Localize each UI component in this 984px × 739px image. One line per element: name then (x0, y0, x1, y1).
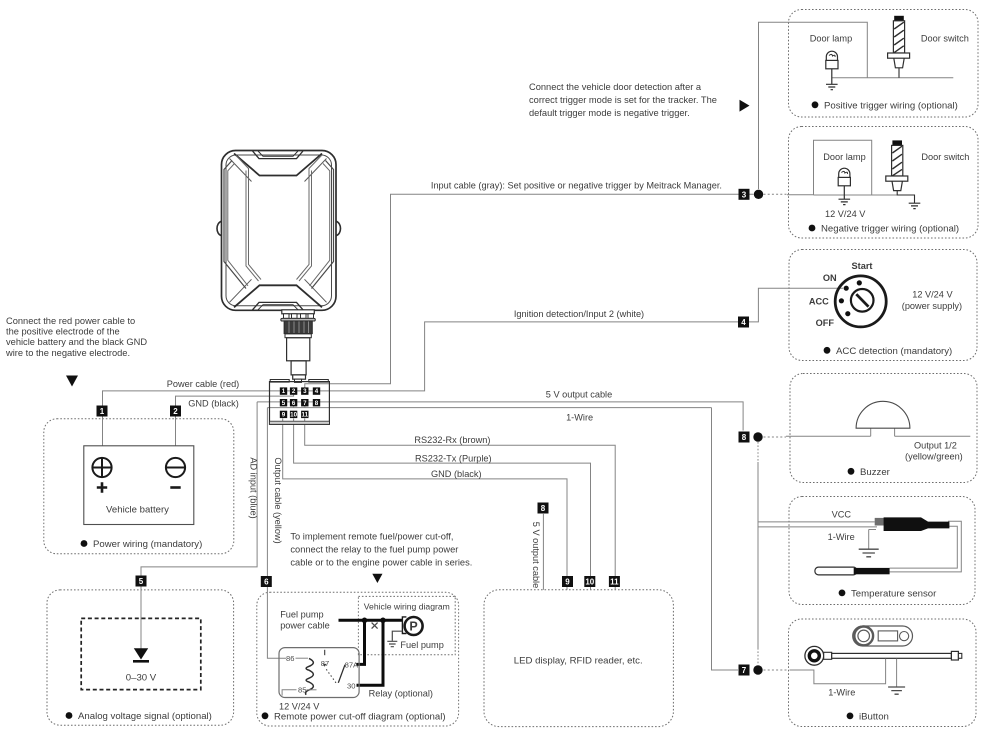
iButton probe hub (824, 652, 832, 659)
svg-text:87: 87 (321, 659, 329, 668)
svg-text:2: 2 (173, 407, 178, 416)
wire: vertical riser to positive trigger box (759, 22, 868, 189)
wire: GND black from pin9 to square 9 (283, 418, 567, 589)
svg-text:1: 1 (282, 388, 286, 395)
svg-text:vehicle battery and the black: vehicle battery and the black GND (6, 337, 147, 347)
pin 3 (301, 387, 308, 394)
node 8 (LED feed) (538, 503, 549, 514)
tracker side bump left (217, 221, 222, 235)
temp sensor probe (815, 567, 857, 575)
ground (negative lamp) (839, 199, 851, 204)
pin 8 (313, 399, 320, 406)
caption: negative trigger wiring (809, 224, 960, 235)
wire: input cable gray from pin3 to square 3 (305, 194, 754, 388)
svg-text:Input cable (gray): Set positi: Input cable (gray): Set positive or nega… (431, 181, 722, 191)
svg-text:default trigger mode is negati: default trigger mode is negative trigger… (529, 108, 690, 118)
svg-text:3: 3 (742, 190, 747, 199)
svg-text:Buzzer: Buzzer (860, 467, 891, 478)
temp sensor ground lead (869, 530, 876, 549)
svg-text:OFF: OFF (816, 318, 835, 328)
wire: output cable down to relay pin 86 (267, 408, 286, 659)
node 3 (739, 189, 750, 200)
note: door detection paragraph (529, 82, 717, 118)
caption: ACC detection (824, 346, 953, 357)
svg-text:Door switch: Door switch (921, 34, 969, 44)
svg-text:power cable: power cable (280, 621, 330, 631)
caption: power wiring (81, 539, 203, 550)
svg-text:5: 5 (139, 577, 144, 586)
iButton probe end connector (951, 651, 958, 660)
tracker body outline (217, 151, 341, 311)
ignition key switch outer circle (835, 276, 886, 327)
connector flange left (270, 380, 289, 383)
svg-text:4: 4 (741, 318, 746, 327)
svg-text:Door switch: Door switch (921, 152, 969, 162)
svg-text:RS232-Tx (Purple): RS232-Tx (Purple) (415, 454, 492, 464)
node 2 (170, 406, 181, 417)
svg-text:0–30 V: 0–30 V (126, 673, 157, 684)
svg-text:(power supply): (power supply) (902, 301, 962, 311)
buzzer wire (786, 435, 970, 437)
iButton reader window (878, 631, 897, 641)
node 8 (right column) (739, 432, 750, 443)
caption: iButton (847, 711, 889, 722)
door switch (positive) (888, 16, 910, 78)
wire: vertical net between square8 dot and square7 dot (757, 442, 759, 462)
relay wire 86 to coil (296, 657, 309, 659)
svg-text:8: 8 (742, 433, 747, 442)
svg-text:5: 5 (282, 400, 286, 407)
svg-text:iButton: iButton (859, 711, 889, 722)
gland knurled nut (284, 321, 312, 334)
wire: 5V output cable stub to LED box (542, 514, 544, 590)
marker: right triangle top (740, 100, 750, 112)
temp sensor ground (859, 549, 879, 557)
battery positive terminal (92, 458, 111, 477)
svg-text:7: 7 (742, 666, 747, 675)
wire: 1-wire down to square 7 (712, 408, 739, 670)
ignition key slot (856, 294, 868, 307)
svg-text:GND (black): GND (black) (431, 469, 482, 479)
wire: GND black to battery minus (176, 395, 294, 446)
cut mark X (372, 623, 378, 629)
tracker top chevron (234, 154, 322, 176)
battery plus sign (97, 482, 107, 492)
svg-text:3: 3 (303, 388, 307, 395)
svg-text:1: 1 (100, 407, 105, 416)
tracker right panel (312, 161, 334, 289)
svg-text:AD input (blue): AD input (blue) (249, 457, 259, 518)
node 11 (609, 576, 620, 587)
door switch (negative) (886, 140, 915, 203)
box: remote power cut-off (257, 592, 459, 726)
pin 7 (301, 399, 308, 406)
svg-text:12 V/24 V: 12 V/24 V (825, 209, 866, 219)
svg-text:Ignition detection/Input 2 (wh: Ignition detection/Input 2 (white) (514, 309, 644, 319)
svg-text:9: 9 (282, 412, 286, 419)
svg-text:LED display, RFID reader, etc.: LED display, RFID reader, etc. (514, 656, 643, 667)
relay R1 body (279, 648, 359, 698)
key position dot off (845, 311, 850, 316)
svg-text:85: 85 (298, 686, 306, 695)
gland flange (282, 310, 315, 314)
note: battery connection paragraph (5, 316, 147, 358)
junction dot relay 87A tap (362, 618, 368, 624)
caption: positive trigger wiring (812, 100, 958, 111)
caption: temperature sensor (839, 588, 938, 599)
caption: analog voltage signal (66, 711, 212, 722)
key position dot on (844, 286, 849, 291)
svg-text:Connect the vehicle door detec: Connect the vehicle door detection after… (529, 82, 702, 92)
tracker top notch (253, 151, 304, 159)
box: iButton (789, 619, 977, 727)
wire: AD input net from pin5 down to square 5 (141, 402, 257, 649)
ground (negative switch) (909, 203, 921, 208)
svg-text:the positive electrode of the: the positive electrode of the (6, 327, 120, 337)
box: buzzer (790, 374, 977, 483)
svg-text:1-Wire: 1-Wire (566, 413, 593, 423)
svg-text:ON: ON (823, 273, 837, 283)
node 4 (738, 317, 749, 328)
node 7 (739, 665, 750, 676)
relay switch blade (338, 665, 345, 683)
svg-text:wire to the negative electrode: wire to the negative electrode. (5, 348, 130, 358)
door lamp (positive) (826, 51, 838, 84)
key position dot acc (839, 298, 844, 303)
marker: down triangle cut-off (372, 574, 382, 583)
iButton reader pill (853, 626, 913, 646)
junction dot at node 8 (753, 432, 762, 441)
svg-text:12 V/24 V: 12 V/24 V (912, 290, 953, 300)
thick line dot1 to relay 87A (357, 620, 365, 664)
svg-text:Door lamp: Door lamp (810, 34, 852, 44)
node 6 (261, 576, 272, 587)
svg-text:6: 6 (264, 578, 269, 587)
svg-text:Positive trigger wiring (optio: Positive trigger wiring (optional) (824, 100, 958, 111)
tracker inner frame left (236, 156, 261, 280)
svg-text:2: 2 (292, 388, 296, 395)
wire: dashed segment square8 dot to buzzer box (764, 436, 787, 438)
note: remote cut-off paragraph (290, 532, 472, 568)
svg-text:Remote power cut-off diagram (: Remote power cut-off diagram (optional) (274, 711, 446, 722)
svg-text:1-Wire: 1-Wire (828, 532, 855, 542)
connector flange right (309, 380, 329, 383)
gland white band (285, 334, 311, 338)
thick line dot2 to relay 30 (357, 620, 384, 685)
pin 9 (280, 411, 287, 418)
iButton reader coin rings (854, 627, 873, 646)
tracker bottom chevron (234, 285, 322, 307)
svg-text:8: 8 (541, 504, 546, 513)
svg-text:GND (black): GND (black) (188, 399, 239, 409)
junction dot at node 7 (753, 665, 762, 674)
tracker left panel (224, 161, 246, 289)
box: positive trigger wiring (789, 10, 979, 118)
pin 1 (280, 387, 287, 394)
svg-text:Vehicle battery: Vehicle battery (106, 505, 169, 516)
caption: remote power cut-off (262, 711, 446, 722)
svg-text:Analog voltage signal (optiona: Analog voltage signal (optional) (78, 711, 212, 722)
svg-text:Output cable (yellow): Output cable (yellow) (273, 457, 283, 543)
tracker inner frame right (297, 156, 322, 280)
svg-text:87A: 87A (345, 661, 359, 670)
svg-text:30: 30 (347, 681, 355, 690)
pin 10 (290, 411, 297, 418)
analog inner dashed rect (81, 618, 201, 689)
svg-text:Power wiring (mandatory): Power wiring (mandatory) (93, 539, 202, 550)
svg-text:To implement remote fuel/power: To implement remote fuel/power cut-off, (290, 532, 453, 542)
positive box base wire (832, 77, 954, 79)
wire: output cable yellow net pin6/pin7 row (267, 407, 711, 408)
relay 87 stub and arrow (324, 650, 326, 655)
box: analog voltage signal (47, 590, 234, 725)
box: power wiring (battery) (44, 419, 234, 554)
svg-text:connect the relay to the fuel: connect the relay to the fuel pump power (290, 545, 458, 555)
temp sensor inline connector (875, 518, 885, 526)
wire: VCC feed into temperature sensor (758, 521, 875, 523)
node 5 (136, 576, 147, 587)
buzzer dome (856, 401, 910, 428)
fuel pump ground lead (392, 631, 402, 641)
fuel pump ground (387, 641, 397, 646)
negative box loop wire (787, 140, 897, 195)
iButton probe ring (805, 646, 824, 665)
buzzer legs (871, 428, 895, 436)
svg-text:7: 7 (303, 400, 307, 407)
iButton ground lead (896, 659, 898, 687)
iButton 1-wire hookup (790, 659, 886, 684)
door lamp (negative) (838, 168, 850, 199)
svg-text:9: 9 (565, 578, 570, 587)
svg-text:86: 86 (286, 654, 294, 663)
node 10 (584, 576, 595, 587)
gland tabs (284, 314, 290, 319)
svg-text:5 V output cable: 5 V output cable (546, 390, 612, 400)
svg-text:P: P (409, 620, 417, 634)
gland cylinder (287, 338, 310, 361)
svg-text:ACC detection (mandatory): ACC detection (mandatory) (836, 346, 952, 357)
wire: power cable / ignition detection net (pin1-pin4 row to ACC) (103, 288, 844, 446)
tracker side bump right (336, 221, 341, 235)
svg-text:6: 6 (292, 400, 296, 407)
pin 6 (290, 399, 297, 406)
svg-text:4: 4 (315, 388, 319, 395)
analog arrow (134, 648, 148, 659)
gland key tab (295, 379, 302, 382)
wire: 1-wire feed into temperature sensor (758, 526, 877, 528)
wire: RS232-Tx from pin10 to square 10 (294, 418, 591, 589)
svg-text:11: 11 (610, 577, 619, 586)
pin 2 (290, 387, 297, 394)
node 9 (562, 576, 573, 587)
pin 11 (301, 411, 308, 418)
box: ACC detection (789, 250, 977, 361)
wire: dashed segment square3 dot to negative box (764, 193, 788, 195)
svg-text:Relay (optional): Relay (optional) (369, 689, 433, 699)
svg-text:Fuel pump: Fuel pump (280, 610, 323, 620)
gland stem (291, 361, 306, 375)
svg-text:10: 10 (585, 577, 594, 586)
key position dot start (857, 280, 862, 285)
svg-text:Door lamp: Door lamp (823, 152, 865, 162)
svg-text:Connect the red power cable to: Connect the red power cable to (6, 316, 135, 326)
iButton ground (888, 687, 905, 694)
node 1 (97, 406, 108, 417)
gland ring (281, 318, 316, 321)
ground (positive lamp) (826, 84, 838, 89)
battery negative terminal (166, 458, 185, 477)
svg-text:12 V/24 V: 12 V/24 V (279, 702, 320, 712)
svg-text:Negative trigger wiring (optio: Negative trigger wiring (optional) (821, 224, 959, 235)
svg-text:11: 11 (302, 411, 309, 418)
iButton probe rod (832, 653, 952, 658)
junction dot relay 30 tap (380, 618, 386, 624)
svg-text:ACC: ACC (809, 296, 829, 306)
ignition key switch inner circle (851, 289, 874, 312)
marker: down triangle left (66, 376, 78, 387)
gland bottom band (293, 375, 306, 379)
pin 5 (280, 399, 287, 406)
temp sensor cable loop (890, 521, 962, 572)
box: negative trigger wiring (789, 127, 979, 239)
fuel pump bracket (402, 617, 406, 634)
svg-text:Vehicle wiring diagram: Vehicle wiring diagram (364, 602, 450, 612)
iButton reader small circle (900, 632, 909, 641)
svg-text:1-Wire: 1-Wire (828, 688, 855, 698)
svg-text:Output 1/2: Output 1/2 (914, 440, 957, 450)
fuel pump P circle (405, 617, 423, 635)
svg-text:8: 8 (315, 400, 319, 407)
wire: RS232-Rx from pin11 to square 11 (305, 418, 616, 589)
wire: 5V output row (pin5-pin8) to square 8 (257, 402, 743, 431)
svg-text:correct trigger mode is set fo: correct trigger mode is set for the trac… (529, 95, 717, 105)
battery minus sign (170, 486, 180, 489)
svg-text:(yellow/green): (yellow/green) (905, 452, 963, 462)
svg-text:cable or to the engine power c: cable or to the engine power cable in se… (290, 558, 472, 568)
connector body (270, 382, 330, 425)
box: LED display RFID reader (484, 590, 673, 727)
svg-text:10: 10 (290, 411, 297, 418)
junction dot at node 3 (754, 190, 763, 199)
svg-text:Power cable (red): Power cable (red) (167, 379, 240, 389)
wire: dashed segment square7 dot to iButton box (764, 669, 788, 671)
svg-text:5 V output cable: 5 V output cable (531, 522, 541, 588)
svg-text:Fuel pump: Fuel pump (400, 640, 443, 650)
pin 4 (313, 387, 320, 394)
svg-text:VCC: VCC (832, 509, 852, 519)
svg-text:Temperature sensor: Temperature sensor (851, 588, 937, 599)
relay coil (306, 658, 314, 694)
svg-text:Start: Start (852, 261, 873, 271)
relay actuation dotted line (326, 669, 337, 684)
relay wire 85 (282, 690, 296, 696)
svg-text:RS232-Rx (brown): RS232-Rx (brown) (414, 435, 490, 445)
box: vehicle wiring diagram (dotted) (358, 596, 455, 654)
thick fuel pump power line (339, 619, 403, 622)
box: temperature sensor (789, 497, 975, 605)
caption: buzzer (848, 467, 891, 478)
connector bottom band (270, 421, 330, 424)
battery rectangle (84, 446, 194, 525)
tracker bottom notch (253, 302, 304, 309)
